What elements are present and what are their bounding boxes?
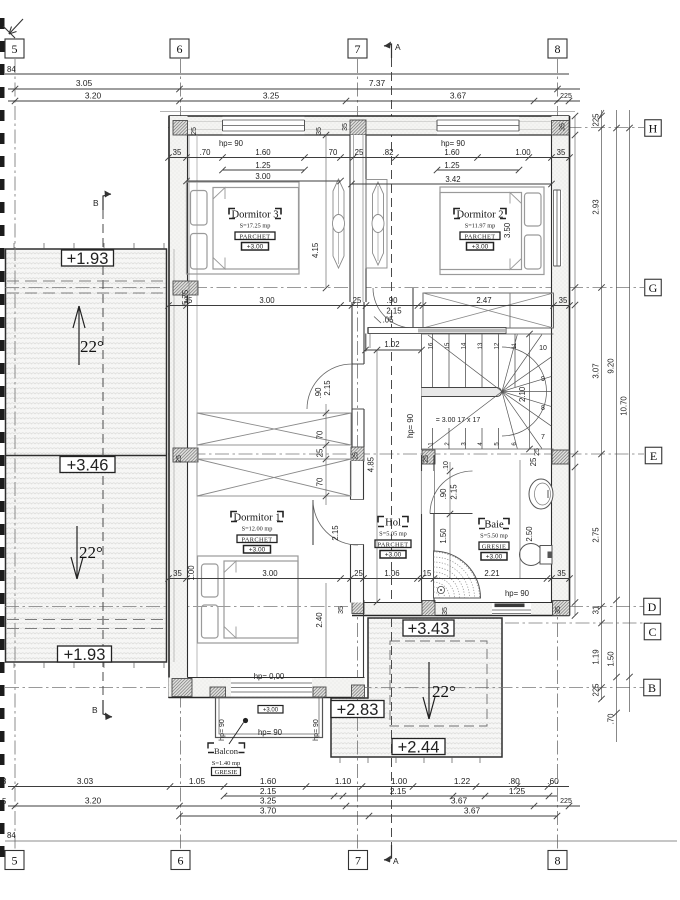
bubble 6 bottom: [171, 851, 190, 870]
dashed roof edge rect inside bottom terrace: [390, 641, 487, 726]
svg-text:5: 5: [12, 853, 18, 867]
svg-text:7: 7: [355, 853, 361, 867]
svg-text:2.50: 2.50: [525, 526, 534, 542]
svg-text:7.37: 7.37: [369, 78, 386, 88]
svg-text:2.15: 2.15: [260, 786, 277, 796]
stair upper step numbers: [429, 342, 519, 349]
floor opening over stair (X-braced): [423, 293, 554, 328]
svg-text:2.40: 2.40: [315, 612, 324, 628]
svg-text:Dormitor 1: Dormitor 1: [234, 513, 281, 524]
bubble 7 top: [348, 39, 367, 58]
corner section arrow top-left: [3, 19, 23, 38]
svg-text:PARCHET: PARCHET: [240, 233, 271, 240]
exterior wall right (east): [552, 116, 570, 616]
svg-text:Baie: Baie: [484, 520, 504, 531]
slope arrow down 22deg terrace: [423, 662, 456, 719]
interior wall corridor west door to E: [352, 409, 364, 447]
room label dormitor 2: [454, 209, 506, 251]
svg-text:GRESIE: GRESIE: [215, 769, 238, 776]
svg-text:+3.00: +3.00: [385, 552, 402, 559]
svg-text:35: 35: [442, 607, 449, 615]
bubble 8 top: [548, 39, 567, 58]
elevation label +1.93 lower: [58, 646, 112, 664]
svg-text:1.25: 1.25: [255, 161, 271, 170]
svg-text:D: D: [648, 600, 657, 614]
svg-text:3.70: 3.70: [260, 806, 277, 816]
vertical dim 5.75: [181, 135, 190, 305]
svg-text:3.00: 3.00: [262, 569, 278, 578]
svg-text:3.67: 3.67: [464, 806, 481, 816]
svg-text:2.21: 2.21: [484, 569, 499, 578]
bottom dim row D (y816): [176, 806, 560, 820]
svg-text:31: 31: [592, 606, 601, 615]
svg-text:B: B: [92, 705, 98, 715]
svg-text:1.25: 1.25: [509, 786, 526, 796]
stair landing edge bar top: [368, 328, 506, 334]
svg-text:.10: .10: [443, 461, 450, 471]
svg-text:16: 16: [429, 342, 435, 349]
grid axis G horizontal: [5, 287, 644, 289]
svg-text:1.60: 1.60: [255, 148, 271, 157]
right dim col R2 (x616.5): [607, 110, 620, 742]
right dim col R1 (x601.5): [592, 110, 605, 702]
svg-text:B: B: [648, 681, 656, 695]
svg-text:25: 25: [534, 448, 541, 456]
svg-text:.90: .90: [314, 387, 323, 399]
vertical dim 4.85 corridor: [367, 347, 381, 605]
wall stub E east (axis8): [552, 450, 569, 464]
vertical dim 2.40 dormitor1: [315, 583, 326, 677]
svg-text:35: 35: [342, 123, 349, 131]
svg-text:1.60: 1.60: [444, 148, 460, 157]
bubble 5 bottom: [5, 851, 24, 870]
svg-text:A: A: [395, 42, 401, 52]
svg-text:25: 25: [423, 455, 430, 463]
room label dormitor 1: [231, 512, 283, 554]
svg-text:25: 25: [316, 448, 325, 457]
svg-text:4.15: 4.15: [311, 242, 320, 258]
svg-text:1.50: 1.50: [439, 528, 448, 544]
svg-text:70: 70: [329, 148, 338, 157]
balcony annotations: [219, 706, 320, 745]
svg-text:13: 13: [478, 342, 484, 349]
svg-text:35: 35: [555, 606, 562, 614]
svg-text:35: 35: [316, 127, 323, 135]
door dormitor 2 (in G wall): [373, 288, 413, 328]
dim row hol/dormitor1 (y578): [165, 569, 572, 582]
svg-text:6: 6: [178, 853, 184, 867]
svg-text:hp= 90: hp= 90: [441, 139, 466, 148]
svg-text:225: 225: [592, 683, 601, 697]
svg-text:= 3.00 17 x 17: = 3.00 17 x 17: [436, 417, 481, 424]
grid axis H horizontal: [168, 127, 644, 129]
svg-text:1.19: 1.19: [592, 649, 601, 664]
wardrobe dormitor 3 (X): [197, 413, 351, 445]
svg-text:3.20: 3.20: [85, 796, 102, 806]
stair lower step numbers: [429, 442, 519, 446]
dim row 1.25 (y170): [219, 161, 522, 173]
svg-text:2.47: 2.47: [476, 296, 491, 305]
svg-text:hp= 90: hp= 90: [505, 589, 530, 598]
stair east step numbers: [539, 345, 547, 441]
pillar grid6 top wall: [173, 121, 188, 136]
exterior wall bottom (south, hol+baie): [352, 603, 570, 616]
svg-text:3.07: 3.07: [592, 363, 601, 378]
exterior wall top (north): [160, 112, 575, 136]
svg-text:.70: .70: [607, 713, 616, 725]
svg-text:25: 25: [529, 457, 538, 466]
svg-text:+3.00: +3.00: [472, 244, 489, 251]
svg-text:.90: .90: [387, 296, 399, 305]
grid axis 7 vertical: [357, 59, 359, 849]
svg-text:1.02: 1.02: [384, 340, 399, 349]
svg-text:12: 12: [495, 342, 501, 349]
top dim line 3.20/3.25/3.67/225 (y101): [8, 91, 580, 105]
svg-text:22°: 22°: [80, 337, 104, 356]
svg-text:2.15: 2.15: [386, 307, 402, 316]
bottom terrace edge ticks: [340, 757, 480, 763]
svg-text:25: 25: [353, 296, 362, 305]
pillar D baie west: [422, 601, 435, 616]
pillar south wall balcon left: [210, 687, 226, 697]
wall stub D hol west: [352, 601, 364, 614]
stair flight lower treads: [422, 428, 554, 449]
svg-text:GRESIE: GRESIE: [482, 543, 506, 550]
bubble 6 top: [170, 39, 189, 58]
dim column wall thickness right: [572, 113, 578, 619]
dim row G (y305): [165, 296, 572, 325]
svg-text:9.20: 9.20: [607, 358, 616, 374]
svg-text:hp= 0,00: hp= 0,00: [254, 672, 285, 681]
toilet baie: [520, 544, 553, 566]
svg-text:35: 35: [173, 148, 182, 157]
section line A-A vertical: [384, 42, 401, 867]
svg-text:+3.43: +3.43: [408, 620, 450, 638]
svg-text:2.10: 2.10: [518, 386, 527, 402]
svg-text:3.03: 3.03: [77, 776, 94, 786]
stair dim 2.10: [518, 331, 533, 452]
terrace dashed eave lines lower: [7, 620, 166, 629]
shower corner baie: [434, 551, 481, 598]
pillar south wall balcon right: [313, 687, 326, 697]
stair west boundary line: [421, 334, 423, 450]
bubble G: [645, 279, 662, 296]
top dim line 84 (y74): [5, 65, 569, 74]
svg-text:3.00: 3.00: [259, 296, 275, 305]
exterior wall bottom (south, dormitor 1): [169, 678, 365, 698]
svg-text:+2.83: +2.83: [337, 701, 379, 719]
terrace bottom edge ticks: [14, 662, 164, 668]
svg-text:S=5.05 mp: S=5.05 mp: [379, 531, 407, 538]
svg-text:3.20: 3.20: [85, 91, 102, 101]
window dormitor 2 north: [437, 117, 519, 134]
svg-text:35: 35: [173, 569, 182, 578]
vertical dim 1.00 dormitor1 west: [187, 565, 196, 581]
bubble B: [644, 679, 661, 696]
stair winder fan: [428, 335, 552, 449]
balcony railing: [216, 698, 323, 738]
svg-text:70: 70: [316, 477, 325, 486]
pillar grid7 top wall: [350, 120, 366, 135]
svg-text:2.15: 2.15: [331, 525, 340, 541]
vertical dim 4.15 dormitor3: [311, 127, 329, 291]
svg-text:+1.93: +1.93: [67, 250, 109, 268]
svg-text:2.15: 2.15: [323, 380, 332, 396]
bubble D: [644, 598, 661, 615]
svg-text:22°: 22°: [432, 682, 456, 701]
svg-text:E: E: [650, 449, 657, 463]
section line B-B vertical: [92, 191, 112, 721]
room label dormitor 3: [229, 209, 281, 251]
svg-text:PARCHET: PARCHET: [465, 233, 496, 240]
svg-text:225: 225: [592, 113, 601, 127]
svg-text:1.10: 1.10: [335, 776, 352, 786]
elevation label +3.43: [403, 620, 454, 638]
balcony door/window dormitor 1 south wall: [231, 679, 312, 697]
interior wall corridor west (axis 7) G to door: [352, 302, 364, 364]
svg-text:2.93: 2.93: [592, 199, 601, 214]
wall stub E west: [173, 448, 198, 462]
bubble E: [645, 447, 662, 464]
svg-text:84: 84: [7, 831, 16, 840]
svg-text:15: 15: [445, 342, 451, 349]
svg-text:8: 8: [541, 405, 545, 412]
svg-text:.60: .60: [547, 776, 559, 786]
svg-text:22°: 22°: [79, 543, 103, 562]
svg-text:5: 5: [2, 797, 7, 806]
svg-text:C: C: [648, 625, 656, 639]
svg-text:Dormitor 2: Dormitor 2: [457, 210, 504, 221]
svg-text:7: 7: [541, 434, 545, 441]
neighbour wall cut dashes, left page edge: [0, 18, 5, 857]
svg-text:4.85: 4.85: [367, 456, 376, 472]
elevation label +3.46: [60, 456, 115, 474]
exterior wall left (west): [169, 116, 188, 698]
svg-text:hp= 90: hp= 90: [219, 139, 244, 148]
svg-text:9: 9: [541, 376, 545, 383]
dim corridor 1.02: [362, 340, 424, 353]
svg-text:Hol: Hol: [385, 518, 401, 529]
svg-text:Dormitor 3: Dormitor 3: [232, 210, 279, 221]
interior wall dormitor3/closet (axis 7) upper: [350, 135, 366, 302]
svg-text:10.70: 10.70: [620, 396, 629, 416]
room label hol: [375, 517, 411, 559]
wall stub E stair west: [422, 450, 435, 464]
svg-text:2.15: 2.15: [390, 786, 407, 796]
svg-text:3.67: 3.67: [450, 91, 467, 101]
bubble H: [645, 120, 662, 137]
svg-text:225: 225: [560, 93, 572, 100]
svg-text:S=5.50 mp: S=5.50 mp: [480, 533, 508, 540]
svg-text:.80: .80: [508, 776, 520, 786]
vertical dim 2.50 baie: [520, 457, 538, 578]
vertical dim 2.15 left of hol: [331, 525, 340, 541]
bottom dim row A (y787): [2, 776, 569, 790]
svg-text:1.60: 1.60: [260, 776, 277, 786]
slope arrow down 22deg: [71, 526, 103, 579]
pillar grid8 top wall: [552, 121, 570, 136]
elevation label +1.93 upper: [62, 250, 114, 268]
grid axis 5 vertical: [14, 59, 16, 849]
svg-text:B: B: [93, 198, 99, 208]
room label baie: [479, 519, 509, 561]
dormitor1 floor note: [254, 672, 285, 681]
svg-text:+3.00: +3.00: [249, 547, 266, 554]
bubble 5 top: [5, 39, 24, 58]
svg-text:5: 5: [12, 42, 18, 56]
svg-text:1.00: 1.00: [391, 776, 408, 786]
svg-text:3.25: 3.25: [260, 796, 277, 806]
window baie south wall: [492, 603, 531, 614]
pillar D east corner: [553, 601, 570, 616]
svg-text:+1.93: +1.93: [64, 646, 106, 664]
svg-text:3.25: 3.25: [263, 91, 280, 101]
svg-text:1.00: 1.00: [515, 148, 531, 157]
svg-text:+3.00: +3.00: [263, 708, 279, 714]
svg-text:1.50: 1.50: [607, 651, 616, 667]
svg-text:2.15: 2.15: [450, 484, 459, 500]
door dormitor 1 (hol west wall): [313, 500, 358, 545]
svg-text:hp= 90: hp= 90: [406, 413, 415, 438]
door dormitor 3 zone (corridor west wall): [307, 364, 352, 409]
svg-text:3.42: 3.42: [445, 175, 460, 184]
terrace dashed eave lines upper: [7, 281, 166, 293]
svg-text:25: 25: [191, 127, 198, 135]
bottom long line (y840): [5, 831, 677, 841]
svg-text:.82: .82: [383, 148, 394, 157]
rotated 35 labels walls: [176, 123, 567, 615]
svg-text:5.75: 5.75: [181, 289, 190, 305]
svg-text:2.75: 2.75: [592, 527, 601, 543]
svg-text:25: 25: [355, 148, 364, 157]
svg-text:Balcon: Balcon: [214, 746, 239, 756]
corridor wall stub below landing bar: [366, 334, 370, 352]
right dim col R3 (x629.5): [620, 110, 633, 712]
svg-text:35: 35: [557, 148, 566, 157]
vertical dims door corridor (x322): [314, 380, 332, 399]
elevation label +2.44: [392, 738, 445, 756]
stair handrail center bar: [422, 388, 502, 397]
svg-text:3.05: 3.05: [76, 78, 93, 88]
wardrobe dormitor 1 (X): [197, 459, 351, 496]
vertical dims baie door (x450): [439, 462, 459, 578]
sink baie: [529, 479, 553, 509]
svg-text:8: 8: [555, 853, 561, 867]
terrace level divider line +3.46: [6, 455, 167, 457]
hp=90 baie window: [505, 589, 530, 598]
svg-text:225: 225: [560, 798, 572, 805]
svg-text:hp= 90: hp= 90: [313, 719, 320, 741]
interior wall hol west (axis 7): [350, 461, 365, 678]
svg-text:S=17.25 mp: S=17.25 mp: [240, 223, 271, 230]
svg-text:H: H: [649, 121, 658, 135]
sliding leaf west of axis7 wall: [333, 179, 345, 268]
svg-text:PARCHET: PARCHET: [242, 536, 273, 543]
window dormitor 2 east wall: [553, 190, 563, 266]
svg-text:.05: .05: [383, 316, 395, 325]
grid axis C horizontal: [505, 622, 644, 624]
vertical dims E closets (x326): [316, 404, 330, 505]
grid axis 6 vertical: [180, 59, 182, 849]
svg-text:.70: .70: [200, 148, 212, 157]
svg-text:+3.00: +3.00: [247, 244, 264, 251]
svg-text:70: 70: [316, 430, 325, 439]
svg-text:hp= 90: hp= 90: [219, 719, 226, 741]
bubble C: [644, 623, 661, 640]
svg-text:S=12.00 mp: S=12.00 mp: [242, 526, 273, 533]
svg-text:+2.44: +2.44: [398, 738, 440, 756]
svg-text:7: 7: [355, 42, 361, 56]
svg-text:PARCHET: PARCHET: [378, 541, 409, 548]
interior wall hol/baie: [422, 455, 435, 603]
svg-text:S=1.40 mp: S=1.40 mp: [212, 760, 241, 767]
grid axis 8 vertical: [557, 59, 559, 849]
svg-text:35: 35: [338, 606, 345, 614]
room label balcon: [208, 743, 245, 776]
bubble 8 bottom: [548, 851, 567, 870]
svg-text:1.00: 1.00: [187, 565, 196, 581]
terrace roof left, hatched: [6, 249, 167, 662]
dim row 3.00 / 3.42 (y183): [183, 172, 554, 187]
svg-text:+3.00: +3.00: [486, 554, 503, 561]
svg-text:1.22: 1.22: [454, 776, 471, 786]
svg-text:3.50: 3.50: [503, 222, 512, 238]
svg-text:1.25: 1.25: [444, 161, 460, 170]
bubble 7 bottom: [349, 851, 368, 870]
svg-text:S=11.97 mp: S=11.97 mp: [465, 223, 496, 230]
door baie: [430, 471, 473, 514]
wall stub E mid (axis7): [351, 447, 364, 461]
pillar SW building corner: [172, 679, 192, 697]
slope arrow up 22deg: [73, 306, 104, 365]
svg-text:25: 25: [354, 569, 363, 578]
dim row under top wall (y157): [165, 139, 572, 161]
svg-text:84: 84: [7, 65, 16, 74]
top dim line 3.05/7.37 (y89): [8, 78, 580, 92]
svg-text:35: 35: [559, 296, 568, 305]
closet niche dormitor 2: [366, 180, 387, 269]
window dormitor 3 north: [223, 117, 305, 134]
svg-text:+3.46: +3.46: [67, 456, 109, 474]
svg-text:A: A: [393, 856, 399, 866]
svg-text:8: 8: [555, 42, 561, 56]
svg-text:35: 35: [560, 123, 567, 131]
svg-text:25: 25: [353, 452, 360, 460]
closet front line west wall: [196, 135, 198, 677]
svg-text:15: 15: [423, 569, 432, 578]
grid axis E horizontal: [168, 453, 644, 455]
bottom dim row C (y806): [2, 796, 580, 810]
pillar south wall axis7: [352, 685, 365, 698]
bed dormitor 2: [440, 187, 544, 275]
svg-text:.90: .90: [439, 488, 448, 500]
svg-text:6: 6: [177, 42, 183, 56]
bed dormitor 1: [198, 556, 299, 643]
grid axis B horizontal: [5, 687, 644, 689]
svg-text:3.67: 3.67: [451, 796, 468, 806]
bottom dim row B (y796): [221, 786, 557, 799]
svg-text:1.05: 1.05: [189, 776, 206, 786]
wall stub G west: [173, 281, 198, 295]
vertical dim 3.50 dormitor2: [503, 222, 512, 238]
bed dormitor 3: [187, 182, 300, 274]
stair annotation: [406, 413, 480, 438]
svg-text:3.00: 3.00: [255, 172, 271, 181]
svg-text:25: 25: [176, 455, 183, 463]
svg-text:1.06: 1.06: [384, 569, 399, 578]
svg-text:3: 3: [2, 777, 6, 786]
elevation label +2.83: [331, 701, 384, 719]
